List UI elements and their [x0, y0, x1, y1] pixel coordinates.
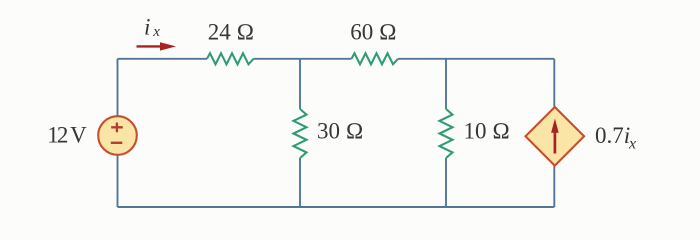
- label 0.7ix: [595, 123, 636, 153]
- wire top node (24ohm to 60ohm): [254, 58, 352, 60]
- wire top node (60ohm to right): [398, 58, 554, 60]
- plus sign inside source: [111, 123, 123, 133]
- minus sign inside source: [111, 142, 123, 144]
- svg-text:x: x: [628, 136, 636, 153]
- svg-text:i: i: [144, 14, 150, 39]
- svg-text:24 Ω: 24 Ω: [208, 20, 254, 45]
- resistor 24 ohm: [207, 53, 254, 64]
- dependent current source 0.7ix (diamond symbol): [526, 107, 585, 166]
- label 24 ohm: [208, 20, 254, 45]
- svg-text:0.7i: 0.7i: [595, 123, 630, 148]
- wire right branch (dependent source): [553, 59, 555, 207]
- svg-text:x: x: [152, 24, 160, 40]
- svg-text:12 V: 12 V: [47, 123, 87, 148]
- wire top node (left segment, source to 24ohm): [118, 58, 208, 60]
- label 60 ohm: [350, 20, 396, 45]
- label 12 V: [47, 123, 87, 148]
- wire bottom node: [118, 206, 555, 208]
- label ix: [144, 14, 160, 40]
- voltage source V1 12V (circle symbol): [98, 116, 137, 155]
- label 10 ohm: [464, 119, 510, 144]
- wire middle branch (30 ohm): [299, 59, 301, 207]
- resistor 60 ohm: [352, 53, 399, 64]
- svg-text:30 Ω: 30 Ω: [317, 119, 363, 144]
- resistor 30 ohm: [294, 109, 307, 158]
- svg-text:10 Ω: 10 Ω: [464, 119, 510, 144]
- label 30 ohm: [317, 119, 363, 144]
- wire left branch (12V source): [117, 59, 119, 207]
- resistor 10 ohm: [440, 109, 453, 158]
- svg-text:60 Ω: 60 Ω: [350, 20, 396, 45]
- current arrow ix: [137, 42, 177, 50]
- wire branch (10 ohm): [445, 59, 447, 207]
- arrow inside dependent source: [551, 119, 559, 154]
